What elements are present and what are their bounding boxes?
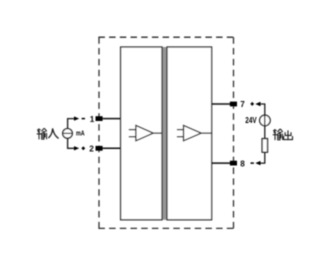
load resistor [262,139,267,153]
op-amp A2 triangle [184,125,202,140]
plus sign (terminal 7) [251,102,254,105]
arrow into terminal 2 [74,146,79,150]
svg-text:8: 8 [240,159,245,168]
terminal 1 pad [96,116,103,121]
wire: source top to terminal 1 arrow [68,119,75,129]
terminal 7 pad [230,102,237,107]
svg-text:1: 1 [90,115,95,124]
op-amp A1 triangle [136,125,153,140]
wire: terminal 2 to block 1 [103,147,121,149]
svg-text:24V: 24V [245,116,257,125]
label 输入 (input) [37,128,59,139]
op-amp A1 input line (upper) [129,129,138,131]
module outline: left dashed edge [98,37,100,228]
arrow into terminal 8 [255,161,260,165]
amplifier block 2 (output side) [167,47,212,220]
voltage source 24V circle [260,115,271,126]
terminal 8 pad [230,161,237,166]
plus sign (terminal 2) [82,147,85,150]
op-amp A2 input line (lower) [177,136,186,138]
amplifier block 1 (input side) [121,47,162,220]
character 输 [273,129,283,140]
isolation barrier (gray band between blocks) [162,47,167,220]
module outline: bottom dashed edge [98,227,234,229]
wire through voltage source [264,115,266,139]
minus sign (terminal 1) [82,118,85,120]
wire: source bottom to terminal 2 arrow [68,138,75,148]
op-amp A1 output line [153,132,162,134]
wire: block 2 to terminal 8 [212,162,234,164]
wire: block 2 to terminal 7 [212,103,234,105]
module outline: top dashed edge [98,36,234,38]
current source circle (mA) [63,129,73,139]
svg-text:2: 2 [89,144,94,153]
op-amp A1 input line (lower) [129,136,138,138]
wire: arrow 7 to output branch top [260,104,265,115]
arrow into terminal 7 [255,102,260,106]
character 出 [284,130,293,139]
wire: terminal 1 to block 1 [103,118,121,120]
terminal 2 pad [96,146,103,151]
op-amp A2 output line [201,132,211,134]
svg-text:mA: mA [76,129,85,138]
module outline: right dashed edge [233,37,235,228]
wire: resistor to terminal 8 corner [260,152,265,163]
arrow into terminal 1 [74,116,79,120]
minus sign (terminal 8) [251,162,254,164]
character 输 [37,128,47,139]
current source chord [63,132,73,134]
label 输出 (output) [273,129,293,140]
svg-text:7: 7 [240,100,245,109]
character 入 [48,128,58,138]
op-amp A2 input line (upper) [177,129,186,131]
